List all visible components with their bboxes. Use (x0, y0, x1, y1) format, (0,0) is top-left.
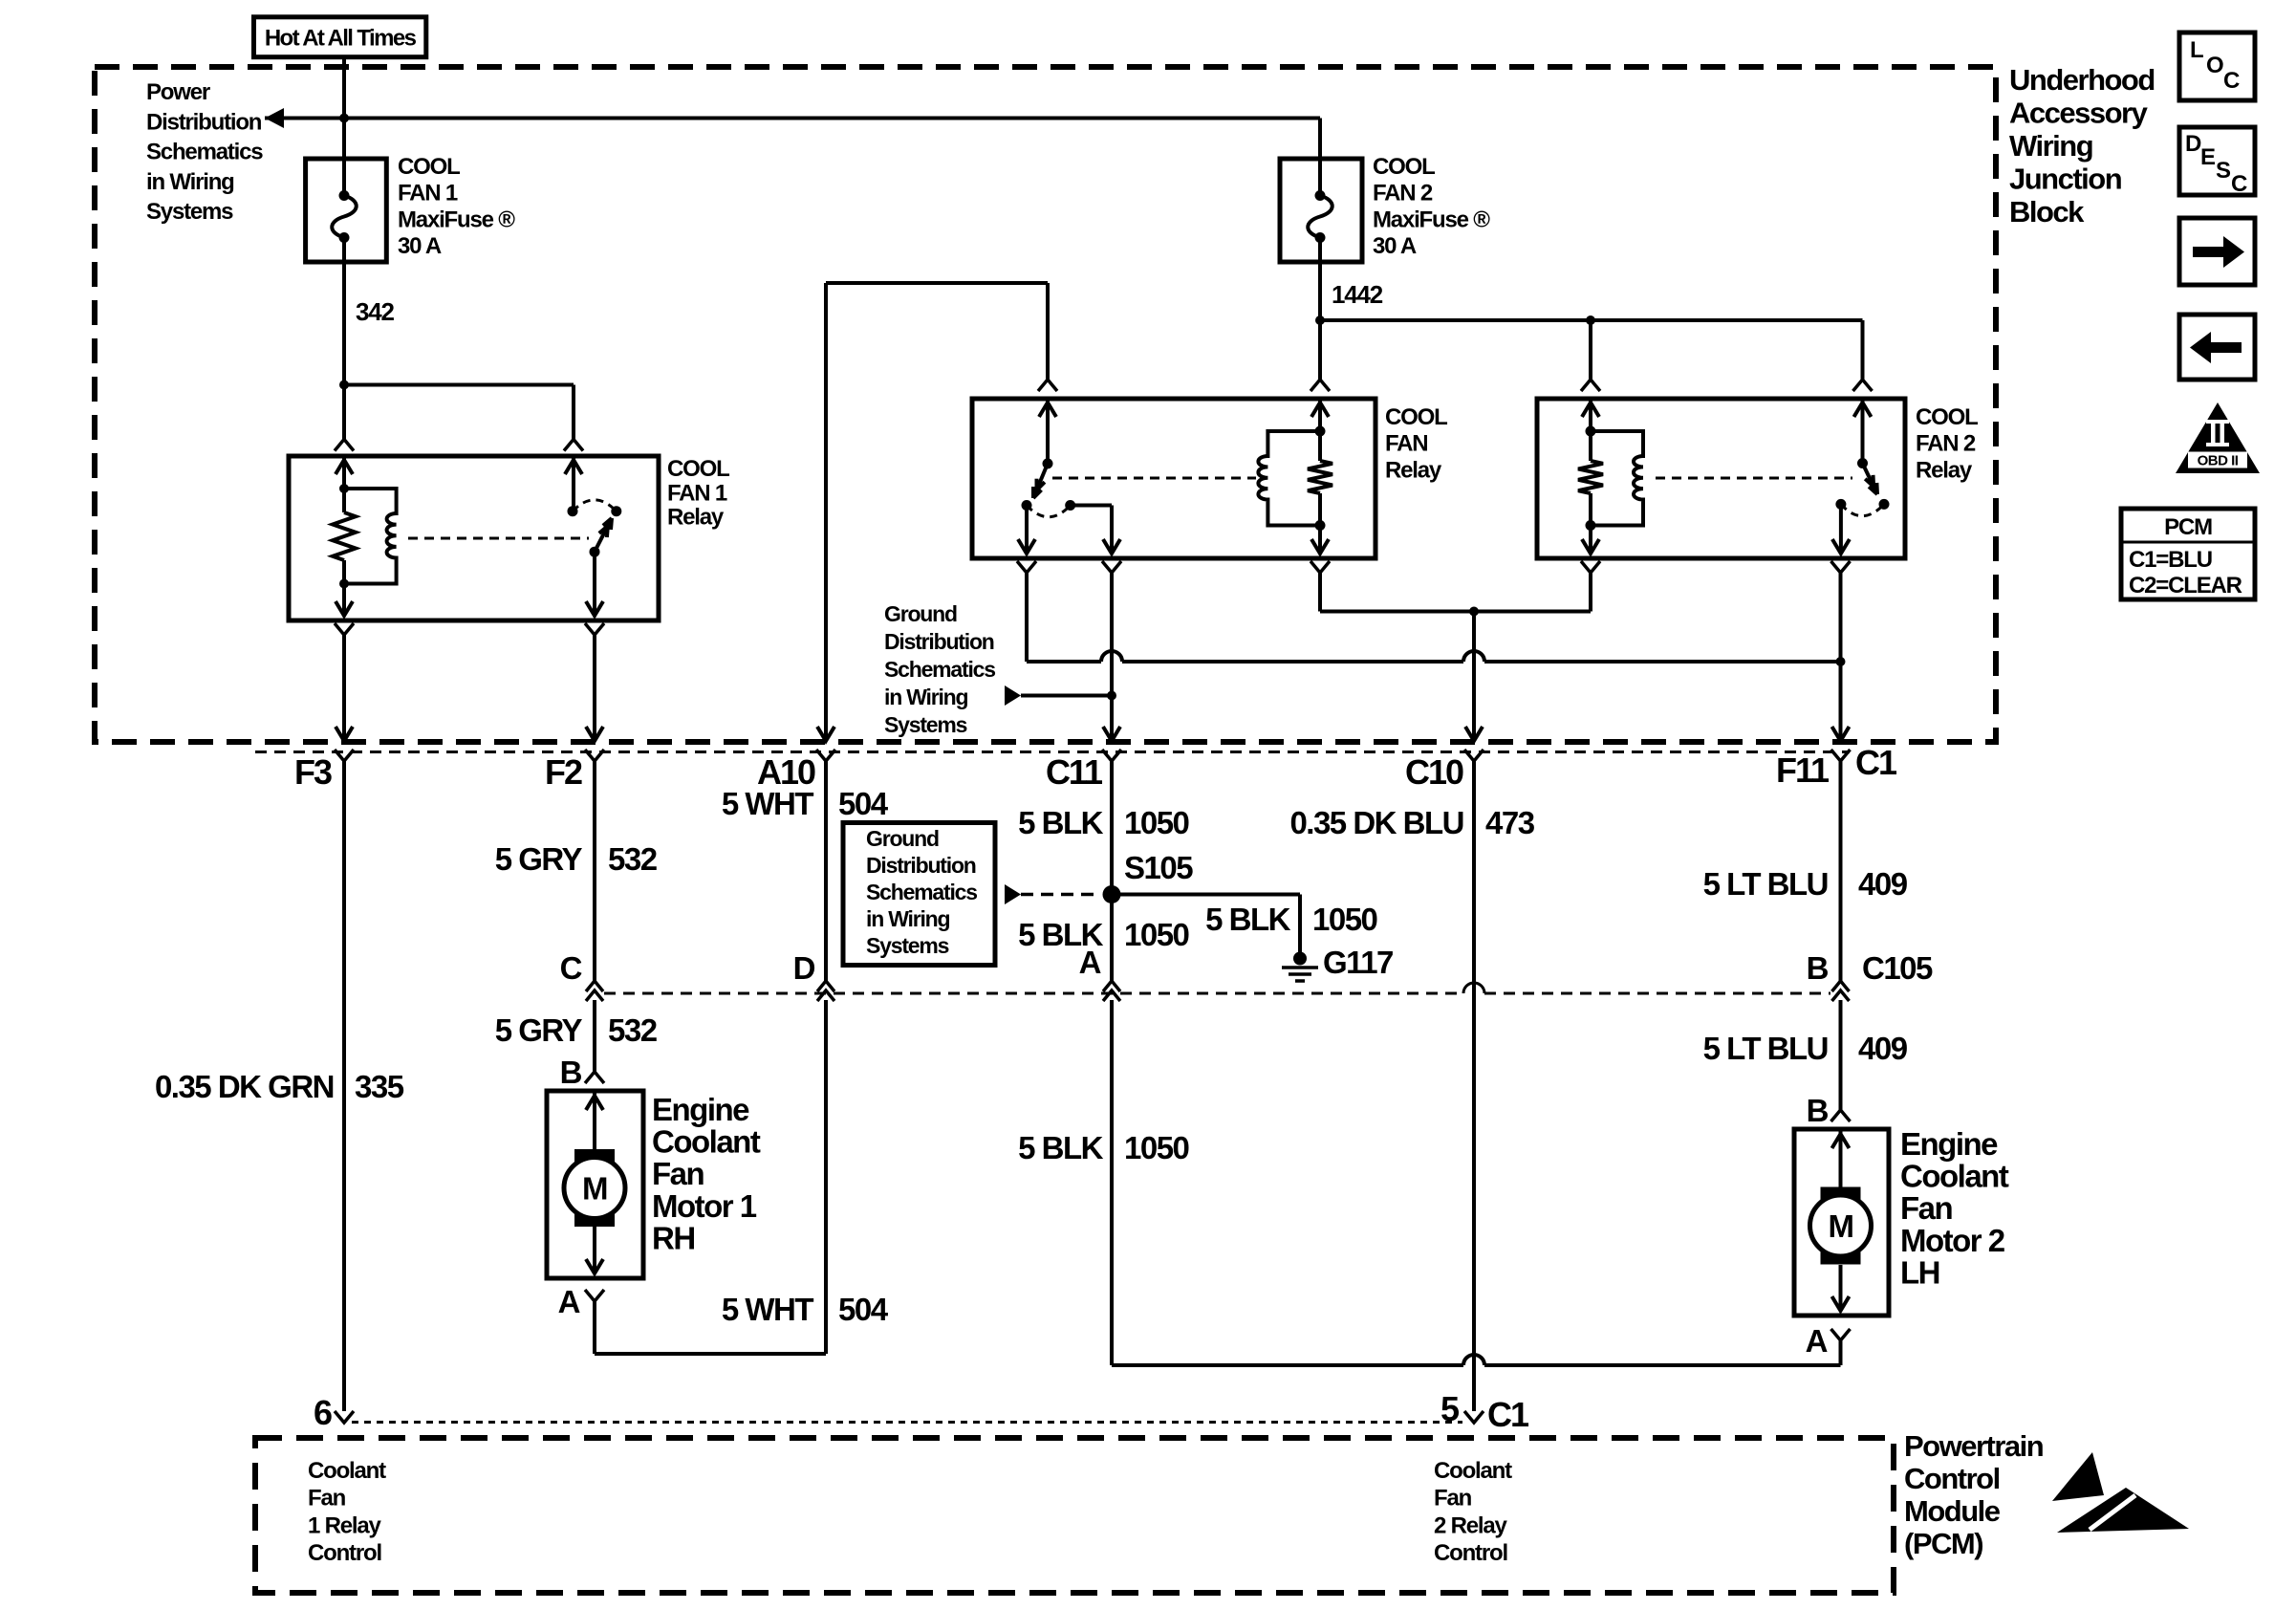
svg-text:in Wiring: in Wiring (146, 169, 234, 195)
svg-text:Relay: Relay (1385, 457, 1442, 483)
svg-text:5 GRY: 5 GRY (495, 841, 583, 877)
svg-text:B: B (560, 1055, 582, 1090)
svg-text:MaxiFuse ®: MaxiFuse ® (398, 207, 515, 232)
svg-text:D: D (793, 950, 815, 986)
svg-text:C: C (2231, 171, 2247, 197)
svg-text:in Wiring: in Wiring (866, 906, 950, 931)
svg-text:Systems: Systems (866, 933, 949, 958)
svg-text:COOL: COOL (1916, 404, 1978, 430)
svg-text:C: C (2223, 68, 2240, 94)
svg-text:Hot At All Times: Hot At All Times (265, 26, 417, 52)
svg-text:Ground: Ground (884, 601, 957, 626)
svg-text:Motor 1: Motor 1 (652, 1188, 757, 1224)
svg-text:PCM: PCM (2164, 514, 2212, 540)
svg-text:6: 6 (314, 1393, 332, 1432)
svg-text:M: M (1829, 1208, 1853, 1244)
svg-text:B: B (1807, 1093, 1829, 1128)
svg-text:1050: 1050 (1312, 902, 1377, 937)
svg-text:F11: F11 (1776, 751, 1830, 790)
svg-text:Coolant: Coolant (1434, 1458, 1512, 1484)
svg-text:30 A: 30 A (1373, 233, 1417, 259)
svg-text:Fan: Fan (652, 1156, 704, 1191)
svg-text:5 BLK: 5 BLK (1018, 805, 1104, 840)
svg-text:RH: RH (652, 1220, 695, 1255)
svg-text:L: L (2190, 37, 2203, 63)
svg-text:Engine: Engine (652, 1092, 749, 1127)
svg-text:5 WHT: 5 WHT (722, 1292, 814, 1327)
svg-text:Junction: Junction (2009, 163, 2122, 196)
svg-text:Underhood: Underhood (2009, 63, 2155, 97)
svg-text:409: 409 (1858, 1031, 1908, 1066)
svg-text:(PCM): (PCM) (1904, 1527, 1982, 1560)
svg-text:D: D (2185, 131, 2201, 157)
svg-text:532: 532 (608, 1012, 658, 1048)
svg-text:1050: 1050 (1124, 917, 1189, 952)
svg-text:Fan: Fan (308, 1486, 346, 1512)
svg-text:B: B (1807, 950, 1829, 986)
svg-text:F3: F3 (294, 752, 332, 792)
svg-text:1442: 1442 (1332, 280, 1383, 309)
svg-text:C1=BLU: C1=BLU (2129, 547, 2212, 573)
svg-text:MaxiFuse ®: MaxiFuse ® (1373, 207, 1490, 232)
svg-text:Relay: Relay (1916, 457, 1973, 483)
svg-text:C1: C1 (1855, 743, 1897, 782)
svg-text:COOL: COOL (667, 456, 729, 482)
svg-text:O: O (2206, 53, 2223, 78)
svg-text:C11: C11 (1046, 752, 1103, 792)
svg-text:FAN: FAN (1385, 431, 1427, 457)
svg-text:C10: C10 (1405, 752, 1463, 792)
svg-text:FAN 1: FAN 1 (667, 480, 727, 506)
svg-text:C2=CLEAR: C2=CLEAR (2129, 573, 2242, 598)
svg-text:5 BLK: 5 BLK (1018, 1130, 1104, 1165)
svg-text:Engine: Engine (1900, 1126, 1998, 1162)
svg-text:A: A (558, 1284, 580, 1319)
svg-text:S105: S105 (1124, 850, 1193, 885)
svg-text:Power: Power (146, 79, 210, 105)
svg-text:Control: Control (1904, 1462, 2000, 1495)
svg-text:Schematics: Schematics (884, 657, 995, 682)
svg-text:G117: G117 (1323, 945, 1393, 980)
svg-text:Distribution: Distribution (884, 629, 994, 654)
svg-text:30 A: 30 A (398, 233, 442, 259)
svg-text:C105: C105 (1862, 950, 1933, 986)
svg-text:Module: Module (1904, 1494, 2001, 1528)
svg-text:FAN 2: FAN 2 (1916, 431, 1976, 457)
svg-text:532: 532 (608, 841, 658, 877)
svg-text:5 LT BLU: 5 LT BLU (1703, 866, 1828, 902)
svg-text:in Wiring: in Wiring (884, 685, 968, 709)
svg-text:473: 473 (1485, 805, 1535, 840)
svg-text:1050: 1050 (1124, 1130, 1189, 1165)
svg-text:Fan: Fan (1434, 1486, 1472, 1512)
svg-text:5 GRY: 5 GRY (495, 1012, 583, 1048)
svg-text:5: 5 (1440, 1389, 1460, 1428)
svg-text:Ground: Ground (866, 826, 939, 851)
svg-text:1 Relay: 1 Relay (308, 1512, 382, 1538)
svg-text:S: S (2216, 158, 2231, 184)
svg-text:LH: LH (1900, 1254, 1939, 1290)
svg-text:FAN 1: FAN 1 (398, 181, 458, 207)
svg-text:C: C (560, 950, 582, 986)
svg-text:5 LT BLU: 5 LT BLU (1703, 1031, 1828, 1066)
svg-text:Distribution: Distribution (146, 109, 262, 135)
svg-text:Distribution: Distribution (866, 853, 976, 878)
svg-text:Control: Control (1434, 1540, 1507, 1566)
svg-text:Schematics: Schematics (146, 140, 263, 165)
svg-text:M: M (582, 1171, 607, 1207)
svg-text:Accessory: Accessory (2009, 97, 2149, 130)
svg-text:5 WHT: 5 WHT (722, 786, 814, 821)
svg-text:Motor 2: Motor 2 (1900, 1223, 2005, 1258)
svg-text:335: 335 (355, 1069, 404, 1104)
svg-text:Systems: Systems (884, 712, 967, 737)
svg-text:OBD II: OBD II (2198, 453, 2239, 469)
svg-text:0.35 DK GRN: 0.35 DK GRN (155, 1069, 334, 1104)
svg-text:COOL: COOL (1385, 404, 1447, 430)
svg-text:Block: Block (2009, 195, 2085, 228)
svg-text:Fan: Fan (1900, 1190, 1953, 1226)
svg-text:Coolant: Coolant (1900, 1159, 2009, 1194)
svg-text:0.35 DK BLU: 0.35 DK BLU (1289, 805, 1463, 840)
svg-text:2 Relay: 2 Relay (1434, 1512, 1508, 1538)
svg-text:E: E (2200, 144, 2216, 170)
svg-text:Wiring: Wiring (2009, 129, 2092, 163)
svg-text:5 BLK: 5 BLK (1205, 902, 1291, 937)
svg-text:342: 342 (356, 297, 395, 326)
svg-text:FAN 2: FAN 2 (1373, 181, 1433, 207)
svg-text:Powertrain: Powertrain (1904, 1429, 2044, 1463)
svg-text:C1: C1 (1487, 1395, 1529, 1434)
svg-text:Schematics: Schematics (866, 880, 977, 904)
svg-text:504: 504 (838, 1292, 889, 1327)
svg-text:Coolant: Coolant (308, 1458, 386, 1484)
svg-text:Systems: Systems (146, 199, 233, 225)
svg-text:504: 504 (838, 786, 889, 821)
svg-text:Control: Control (308, 1540, 381, 1566)
svg-text:COOL: COOL (1373, 154, 1435, 180)
svg-text:COOL: COOL (398, 154, 460, 180)
svg-text:Coolant: Coolant (652, 1124, 761, 1160)
svg-text:409: 409 (1858, 866, 1908, 902)
svg-text:A: A (1806, 1323, 1828, 1359)
svg-text:F2: F2 (545, 752, 582, 792)
svg-text:1050: 1050 (1124, 805, 1189, 840)
svg-text:5 BLK: 5 BLK (1018, 917, 1104, 952)
svg-text:Relay: Relay (667, 505, 725, 531)
